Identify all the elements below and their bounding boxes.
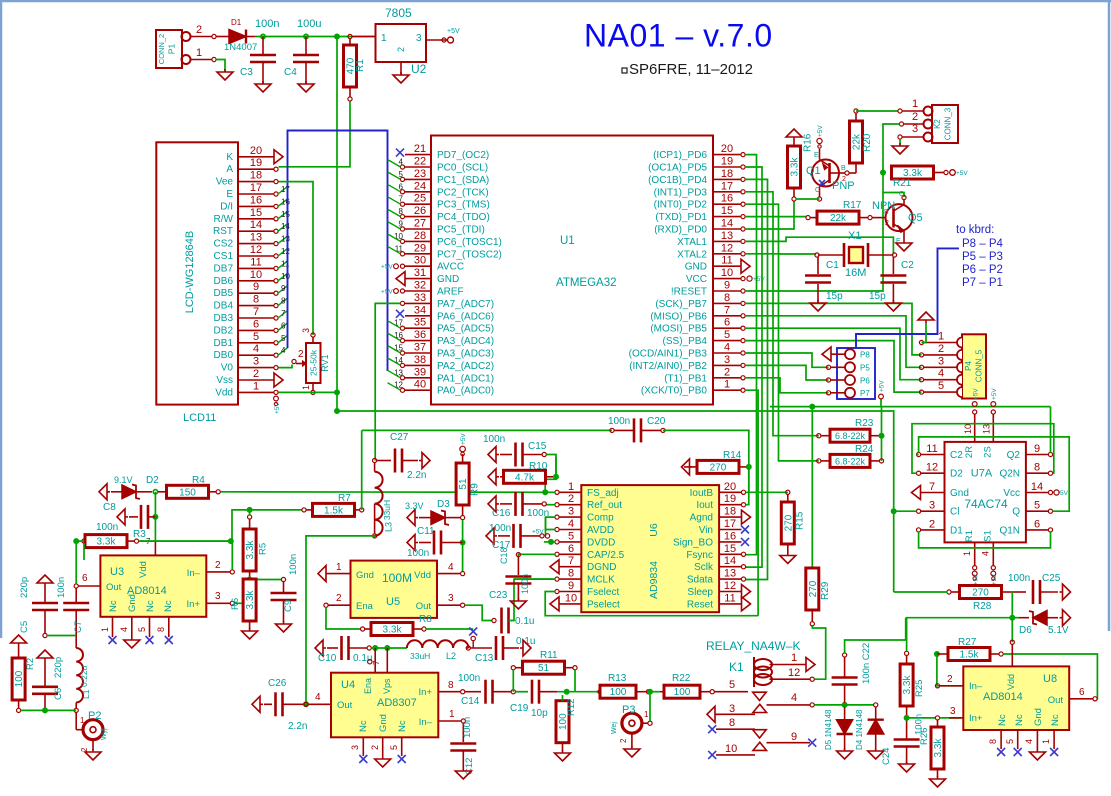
svg-text:D1: D1 bbox=[231, 18, 242, 27]
svg-text:(INT1)_PD3: (INT1)_PD3 bbox=[654, 187, 708, 198]
wire LCD V0 to RV1 wiper bbox=[279, 365, 293, 368]
+5V R21 bbox=[950, 170, 969, 177]
wire R27 left to In- net bbox=[937, 654, 961, 686]
svg-text:S1: S1 bbox=[983, 530, 994, 542]
svg-text:(ICP1)_PD6: (ICP1)_PD6 bbox=[653, 150, 707, 161]
svg-text:D/I: D/I bbox=[220, 201, 233, 212]
svg-text:19: 19 bbox=[724, 493, 736, 505]
svg-text:5: 5 bbox=[1005, 739, 1015, 744]
P4 pin 2 bbox=[919, 343, 957, 357]
svg-text:8: 8 bbox=[448, 680, 454, 691]
resistor R1 470 bbox=[344, 37, 376, 102]
capacitor C5 220p bbox=[19, 575, 58, 638]
svg-text:D4 1N4148: D4 1N4148 bbox=[855, 709, 864, 750]
svg-text:P3: P3 bbox=[622, 704, 635, 716]
svg-text:R1: R1 bbox=[964, 530, 975, 542]
+5V U7A 2R bbox=[972, 388, 979, 407]
svg-text:+5V: +5V bbox=[381, 264, 393, 271]
U1 pin 28 PC6_(TOSC1) bbox=[394, 230, 502, 248]
svg-text:1: 1 bbox=[962, 551, 972, 556]
wire C4 node down to +5V rail and LCD Vdd bbox=[336, 37, 338, 412]
svg-text:C13: C13 bbox=[475, 653, 494, 664]
ground R6 bbox=[242, 628, 258, 639]
svg-text:Sclk: Sclk bbox=[694, 562, 714, 573]
svg-text:8: 8 bbox=[253, 294, 259, 306]
svg-text:100n: 100n bbox=[462, 717, 473, 738]
svg-text:Ena: Ena bbox=[356, 601, 374, 612]
svg-text:5: 5 bbox=[724, 329, 730, 341]
svg-text:Sleep: Sleep bbox=[687, 587, 713, 598]
svg-text:8: 8 bbox=[568, 568, 574, 580]
U8 pin 6 Out bbox=[1048, 687, 1097, 706]
svg-text:Gnd: Gnd bbox=[950, 488, 969, 499]
svg-text:6: 6 bbox=[399, 182, 404, 191]
svg-text:18: 18 bbox=[721, 168, 733, 180]
svg-text:C9: C9 bbox=[283, 600, 294, 612]
svg-text:Vee: Vee bbox=[216, 177, 234, 188]
svg-text:100n: 100n bbox=[527, 508, 549, 519]
svg-text:In+: In+ bbox=[419, 687, 433, 698]
ground U4 pin2 bbox=[375, 756, 391, 767]
U1 pin 6 (MOSI)_PB5 bbox=[650, 317, 745, 335]
svg-text:9: 9 bbox=[791, 731, 797, 743]
resistor R8 3.3k bbox=[361, 614, 433, 636]
svg-text:1: 1 bbox=[336, 562, 342, 573]
svg-text:P2: P2 bbox=[88, 710, 101, 722]
U1 pin 24 PC2_(TCK) bbox=[399, 180, 489, 198]
svg-text:Vcc: Vcc bbox=[1003, 488, 1020, 499]
wire MOSI PB5 to CONN_5 pin4 bbox=[745, 328, 922, 380]
U3 pin 6 Out bbox=[74, 573, 122, 593]
svg-text:Sdata: Sdata bbox=[687, 575, 714, 586]
wire XTAL1 to C2 bbox=[745, 237, 893, 254]
svg-text:+5V: +5V bbox=[460, 433, 467, 445]
svg-text:100n: 100n bbox=[608, 416, 630, 427]
svg-text:PA6_(ADC6): PA6_(ADC6) bbox=[437, 311, 494, 322]
svg-text:270: 270 bbox=[808, 580, 819, 597]
svg-text:0.22u: 0.22u bbox=[79, 665, 89, 687]
svg-text:9: 9 bbox=[1034, 443, 1040, 455]
wire R23 node down bbox=[881, 407, 883, 461]
svg-text:R23: R23 bbox=[855, 418, 874, 429]
wire U3 In+ to R5 node bbox=[234, 580, 243, 604]
svg-text:Agnd: Agnd bbox=[690, 513, 713, 524]
svg-text:Nc: Nc bbox=[1014, 714, 1025, 726]
svg-text:R21: R21 bbox=[893, 178, 912, 189]
svg-text:DGND: DGND bbox=[587, 562, 616, 573]
svg-text:7: 7 bbox=[281, 309, 286, 318]
LCD pin 16 D/I bbox=[220, 194, 278, 212]
svg-text:3.3k: 3.3k bbox=[245, 540, 256, 560]
svg-text:D6: D6 bbox=[1019, 625, 1032, 636]
svg-text:100n: 100n bbox=[288, 554, 299, 575]
wire C23 to MCLK bbox=[509, 579, 556, 620]
svg-text:19: 19 bbox=[721, 156, 733, 168]
resistor R7 1.5k bbox=[302, 493, 364, 516]
svg-text:C20: C20 bbox=[647, 416, 666, 427]
svg-text:Q1N: Q1N bbox=[999, 525, 1020, 536]
svg-text:3: 3 bbox=[568, 506, 574, 518]
svg-text:XTAL1: XTAL1 bbox=[677, 237, 707, 248]
U7A pin 8 Q2N bbox=[999, 462, 1052, 480]
svg-text:14: 14 bbox=[1031, 481, 1043, 493]
U4 top pin stubs bbox=[368, 648, 388, 673]
svg-text:L1: L1 bbox=[81, 689, 91, 699]
ground C18 bbox=[510, 598, 526, 609]
svg-text:9: 9 bbox=[724, 280, 730, 292]
svg-text:C10: C10 bbox=[318, 653, 337, 664]
svg-text:1: 1 bbox=[938, 331, 944, 343]
relay pin 1 bbox=[770, 652, 816, 672]
power arrow R16 top bbox=[786, 129, 802, 147]
svg-text:C25: C25 bbox=[1042, 573, 1061, 584]
ground U2 bbox=[393, 72, 409, 83]
wire SS PB4 to CONN_5 pin5 bbox=[745, 341, 922, 393]
svg-text:Q2N: Q2N bbox=[999, 469, 1020, 480]
svg-text:3: 3 bbox=[950, 706, 956, 717]
U1 pin 15 (TXD)_PD1 bbox=[655, 205, 745, 223]
wire CAP to C18 bbox=[518, 554, 555, 556]
svg-text:In+: In+ bbox=[969, 713, 983, 724]
+5V U7A 2S bbox=[991, 388, 998, 407]
svg-text:2: 2 bbox=[938, 343, 944, 355]
capacitor C19 10p bbox=[510, 680, 557, 719]
svg-text:5: 5 bbox=[389, 745, 399, 750]
svg-text:11: 11 bbox=[281, 259, 290, 268]
svg-text:Nc: Nc bbox=[358, 720, 369, 732]
wire AVDD bbox=[546, 517, 556, 529]
svg-text:DVDD: DVDD bbox=[587, 537, 615, 548]
U1 pin 12 XTAL2 bbox=[677, 242, 745, 260]
DDS U6 AD9834 body bbox=[581, 485, 719, 612]
capacitor C13 0.1u bbox=[475, 636, 535, 664]
resistor R22 100 bbox=[660, 673, 714, 698]
wire PD6 to bus right bbox=[745, 155, 757, 555]
svg-text:5: 5 bbox=[568, 530, 574, 542]
ground C12 bbox=[455, 768, 471, 779]
svg-text:6: 6 bbox=[281, 321, 286, 330]
svg-text:Gnd: Gnd bbox=[1033, 708, 1044, 726]
U1 pin 1 (XCK/T0)_PB0 bbox=[641, 379, 745, 397]
U7A pin 2 D1 bbox=[917, 518, 964, 536]
svg-text:5: 5 bbox=[938, 380, 944, 392]
U1 pin 27 PC5_(TDI) bbox=[399, 218, 485, 236]
svg-text:28: 28 bbox=[414, 230, 426, 242]
ground C25 right arrow bbox=[1060, 584, 1071, 600]
svg-text:to kbrd:: to kbrd: bbox=[956, 224, 994, 236]
svg-text:5: 5 bbox=[137, 627, 147, 632]
svg-text:C18: C18 bbox=[499, 547, 509, 564]
svg-text:K2: K2 bbox=[933, 119, 942, 129]
svg-text:20: 20 bbox=[724, 481, 736, 493]
svg-text:C11: C11 bbox=[417, 526, 435, 537]
LCD pin 13 CS2 bbox=[214, 232, 279, 250]
svg-text:U3: U3 bbox=[110, 566, 124, 578]
svg-text:Vps: Vps bbox=[382, 678, 392, 694]
svg-text:Reset: Reset bbox=[687, 599, 713, 610]
resistor R16 3.3k bbox=[788, 133, 814, 201]
junction rail Vdd bbox=[334, 408, 340, 414]
svg-text:P7: P7 bbox=[860, 389, 870, 398]
svg-text:13: 13 bbox=[721, 230, 733, 242]
svg-text:In+: In+ bbox=[187, 599, 201, 610]
capacitor C2 15p bbox=[869, 257, 914, 303]
svg-text:P6 – P2: P6 – P2 bbox=[962, 264, 1003, 276]
ground D4 bbox=[868, 748, 884, 759]
svg-text:26: 26 bbox=[414, 205, 426, 217]
U1 pin 29 PC7_(TOSC2) bbox=[395, 242, 502, 260]
U1 pin 5 (SS)_PB4 bbox=[663, 329, 746, 347]
resistor R26 3.3k bbox=[919, 716, 944, 777]
svg-text:4: 4 bbox=[938, 368, 944, 380]
svg-text:9: 9 bbox=[253, 281, 259, 293]
U1 pin 22 PC0_(SCL) bbox=[399, 156, 489, 174]
svg-text:Vdd: Vdd bbox=[138, 561, 149, 578]
svg-text:Sign_BO: Sign_BO bbox=[673, 537, 713, 548]
svg-text:8: 8 bbox=[281, 297, 286, 306]
ground R26 bbox=[930, 776, 946, 787]
svg-text:100n: 100n bbox=[255, 18, 279, 30]
LCD pin 20 K bbox=[226, 145, 283, 164]
pin stub above C13 bbox=[471, 636, 475, 648]
svg-text:11: 11 bbox=[250, 256, 261, 268]
svg-text:17: 17 bbox=[281, 185, 290, 194]
wire L2 to C13 bbox=[471, 647, 493, 649]
U6 pin 19 Iout bbox=[696, 493, 745, 511]
svg-text:4: 4 bbox=[791, 692, 797, 704]
svg-text:RST: RST bbox=[213, 226, 233, 237]
wire D6 node from left bbox=[1012, 617, 1019, 619]
svg-text:C15: C15 bbox=[528, 441, 547, 452]
svg-text:2: 2 bbox=[253, 368, 259, 380]
svg-text:15: 15 bbox=[250, 207, 262, 219]
subtitle SP6FRE 11-2012 bbox=[622, 61, 753, 78]
svg-text:K: K bbox=[226, 152, 233, 163]
svg-text:3: 3 bbox=[215, 591, 221, 602]
svg-text:P6: P6 bbox=[860, 377, 870, 386]
wire R22 to relay pin5 bbox=[714, 691, 748, 693]
svg-text:AVDD: AVDD bbox=[587, 525, 614, 536]
svg-text:Fsync: Fsync bbox=[686, 550, 713, 561]
svg-text:3: 3 bbox=[724, 354, 730, 366]
U1 pin 20 (ICP1)_PD6 bbox=[653, 143, 745, 161]
relay contact 5-4-3 bbox=[707, 679, 814, 722]
svg-text:6: 6 bbox=[568, 543, 574, 555]
svg-text:Q: Q bbox=[1012, 507, 1020, 518]
svg-text:29: 29 bbox=[414, 242, 426, 254]
svg-text:E: E bbox=[814, 152, 819, 159]
U5 pin 3 Out bbox=[416, 593, 465, 612]
wire C20 right down to R14 bbox=[663, 430, 749, 492]
svg-text:Nc: Nc bbox=[108, 600, 119, 612]
svg-text:U1: U1 bbox=[560, 235, 575, 247]
svg-text:PA3_(ADC3): PA3_(ADC3) bbox=[437, 349, 494, 360]
svg-text:12: 12 bbox=[281, 247, 290, 256]
svg-text:X1: X1 bbox=[848, 230, 861, 242]
svg-text:10: 10 bbox=[963, 424, 973, 434]
wire R8 right bbox=[426, 628, 473, 630]
wire L3 bottom to U4 Out net bbox=[306, 536, 375, 704]
svg-text:Comp: Comp bbox=[587, 513, 614, 524]
svg-text:+5V: +5V bbox=[956, 170, 968, 177]
resistor R29 270 bbox=[806, 407, 831, 626]
wire P1 pin2 to D1 bbox=[216, 36, 229, 38]
svg-text:D3: D3 bbox=[437, 499, 450, 510]
svg-text:6: 6 bbox=[253, 318, 259, 330]
ground R12 bbox=[555, 750, 571, 761]
svg-text:(MISO)_PB6: (MISO)_PB6 bbox=[650, 311, 707, 322]
U6 pin 20 IoutB bbox=[690, 481, 746, 499]
svg-text:P5 – P3: P5 – P3 bbox=[962, 251, 1003, 263]
ground C2 bbox=[885, 300, 901, 311]
svg-text:C23: C23 bbox=[489, 590, 508, 601]
U1 pin 35 PA5_(ADC5) bbox=[394, 317, 494, 335]
wire C5 C7 bottom link bbox=[47, 635, 76, 637]
relay K1 RELAY_NA4W-K bbox=[706, 639, 800, 674]
svg-text:15: 15 bbox=[281, 210, 290, 219]
svg-text:NA01 – v.7.0: NA01 – v.7.0 bbox=[584, 18, 773, 54]
U6 pin 9 Fselect bbox=[555, 580, 620, 598]
keypad header P8 P5 P6 P7 bbox=[826, 348, 875, 399]
wire C15 to FS node bbox=[546, 455, 556, 477]
U1 pin 40 PA0_(ADC0) bbox=[394, 379, 494, 397]
svg-text:4: 4 bbox=[281, 346, 286, 355]
svg-text:Out: Out bbox=[337, 700, 353, 711]
svg-text:R27: R27 bbox=[958, 637, 977, 648]
svg-text:R11: R11 bbox=[540, 650, 558, 661]
pin 7805 input circle bbox=[348, 34, 352, 38]
LCD module LCD11 LCD-WG12864B body bbox=[156, 142, 238, 424]
relay coil bbox=[754, 657, 772, 687]
capacitor C22 100n bbox=[832, 643, 872, 703]
wire DVDD to C17 bbox=[544, 539, 555, 545]
svg-text:P8 – P4: P8 – P4 bbox=[962, 238, 1004, 250]
U1 pin 37 PA3_(ADC3) bbox=[394, 342, 494, 360]
P4 pin 4 bbox=[919, 368, 957, 382]
resistor R14 270 bbox=[682, 450, 749, 475]
capacitor C10 0.1u bbox=[318, 636, 372, 664]
svg-text:3.3V: 3.3V bbox=[405, 501, 424, 511]
svg-text:D1: D1 bbox=[950, 525, 963, 536]
wire 7805 output to +5V bbox=[426, 39, 448, 41]
U6 pin 10 Pselect bbox=[550, 592, 620, 611]
svg-text:C4: C4 bbox=[284, 67, 297, 78]
svg-text:17: 17 bbox=[250, 182, 262, 194]
wire Cl junction on supply drop bbox=[891, 508, 917, 514]
svg-text:3.3k: 3.3k bbox=[933, 738, 944, 758]
U1 pin 11 GND bbox=[685, 255, 750, 274]
svg-text:R24: R24 bbox=[855, 444, 874, 455]
wire PB3 to keypad P5 bbox=[745, 353, 829, 367]
svg-text:C2: C2 bbox=[950, 450, 963, 461]
U1 pin 13 XTAL1 bbox=[677, 230, 745, 248]
U8 pin 2 In- bbox=[935, 674, 983, 692]
transistor Q5 NPN bbox=[872, 191, 923, 245]
svg-text:Out: Out bbox=[416, 601, 432, 612]
svg-text:6: 6 bbox=[1034, 518, 1040, 530]
LCD pin 2 Vss bbox=[216, 368, 283, 387]
svg-text:Vdd: Vdd bbox=[414, 570, 431, 581]
wire RESET to Q5 collector net bbox=[745, 193, 883, 292]
svg-text:+5V: +5V bbox=[753, 276, 765, 283]
svg-text:CONN_5: CONN_5 bbox=[975, 349, 984, 382]
U1 pin 36 PA3_(ADC4) bbox=[394, 329, 494, 347]
svg-text:P8: P8 bbox=[860, 351, 870, 360]
svg-text:(XCK/T0)_PB0: (XCK/T0)_PB0 bbox=[641, 386, 708, 397]
connector P4 CONN_5 bbox=[957, 334, 986, 398]
svg-text:3: 3 bbox=[938, 355, 944, 367]
ground C1 bbox=[810, 300, 826, 311]
capacitor C27 2.2n bbox=[373, 432, 427, 481]
svg-text:AREF: AREF bbox=[437, 287, 464, 298]
svg-text:4: 4 bbox=[448, 562, 454, 573]
svg-text:L3: L3 bbox=[384, 522, 394, 532]
svg-text:3: 3 bbox=[448, 593, 454, 604]
+5V output bbox=[442, 28, 460, 43]
relay contact 8-9-10 bbox=[708, 717, 816, 759]
svg-text:A: A bbox=[226, 164, 233, 175]
svg-text:Vin: Vin bbox=[699, 525, 713, 536]
svg-text:R2: R2 bbox=[25, 658, 36, 670]
wire K2 pin2 to Q5 collector bbox=[883, 124, 904, 197]
svg-text:100n: 100n bbox=[96, 522, 118, 533]
U3 pin 3 In+ bbox=[187, 591, 235, 610]
svg-text:1: 1 bbox=[449, 709, 455, 720]
LCD pin 9 DB5 bbox=[214, 281, 279, 299]
svg-text:C24: C24 bbox=[881, 748, 892, 765]
svg-text:6: 6 bbox=[1079, 687, 1085, 698]
svg-text:+5V: +5V bbox=[973, 388, 980, 400]
svg-text:(INT0)_PD2: (INT0)_PD2 bbox=[654, 200, 708, 211]
svg-text:13: 13 bbox=[982, 424, 992, 434]
svg-text:3: 3 bbox=[253, 356, 259, 368]
svg-text:10: 10 bbox=[281, 272, 290, 281]
capacitor C4 100u bbox=[284, 18, 321, 84]
svg-text:DB6: DB6 bbox=[214, 276, 234, 287]
svg-text:1.5k: 1.5k bbox=[960, 650, 980, 661]
U6 pin 11 Reset bbox=[687, 592, 751, 611]
svg-text:7: 7 bbox=[568, 555, 574, 567]
ground C24 bbox=[899, 761, 915, 772]
title NA01 - v.7.0 bbox=[584, 18, 773, 54]
svg-text:LCD-WG12864B: LCD-WG12864B bbox=[184, 231, 196, 314]
U7A pin 14 Vcc bbox=[1003, 481, 1052, 499]
svg-text:B: B bbox=[884, 209, 889, 216]
svg-text:Fselect: Fselect bbox=[587, 587, 619, 598]
svg-text:37: 37 bbox=[414, 342, 426, 354]
svg-text:4: 4 bbox=[1024, 739, 1034, 744]
svg-text:GND: GND bbox=[437, 274, 459, 285]
svg-text:PA3_(ADC4): PA3_(ADC4) bbox=[437, 336, 494, 347]
svg-text:5: 5 bbox=[729, 679, 735, 691]
LCD pin 7 DB3 bbox=[214, 306, 279, 324]
U5 pin 4 Vdd bbox=[414, 562, 465, 581]
+5V at LCD Vdd bbox=[274, 396, 281, 414]
svg-text:16: 16 bbox=[394, 331, 403, 340]
svg-text:C14: C14 bbox=[461, 696, 480, 707]
svg-text:PA1_(ADC1): PA1_(ADC1) bbox=[437, 373, 494, 384]
svg-text:18: 18 bbox=[724, 506, 736, 518]
svg-text:PA5_(ADC5): PA5_(ADC5) bbox=[437, 324, 494, 335]
ground U5 pin1 bbox=[318, 566, 329, 582]
blue wire keypad bus bbox=[856, 248, 959, 348]
svg-text:E: E bbox=[226, 189, 233, 200]
svg-text:C8: C8 bbox=[103, 502, 116, 513]
svg-text:1: 1 bbox=[253, 380, 259, 392]
wire Q2 up to rail bbox=[1050, 407, 1052, 453]
svg-text:PD7_(OC2): PD7_(OC2) bbox=[437, 150, 489, 161]
+5V R9 bbox=[460, 433, 467, 456]
